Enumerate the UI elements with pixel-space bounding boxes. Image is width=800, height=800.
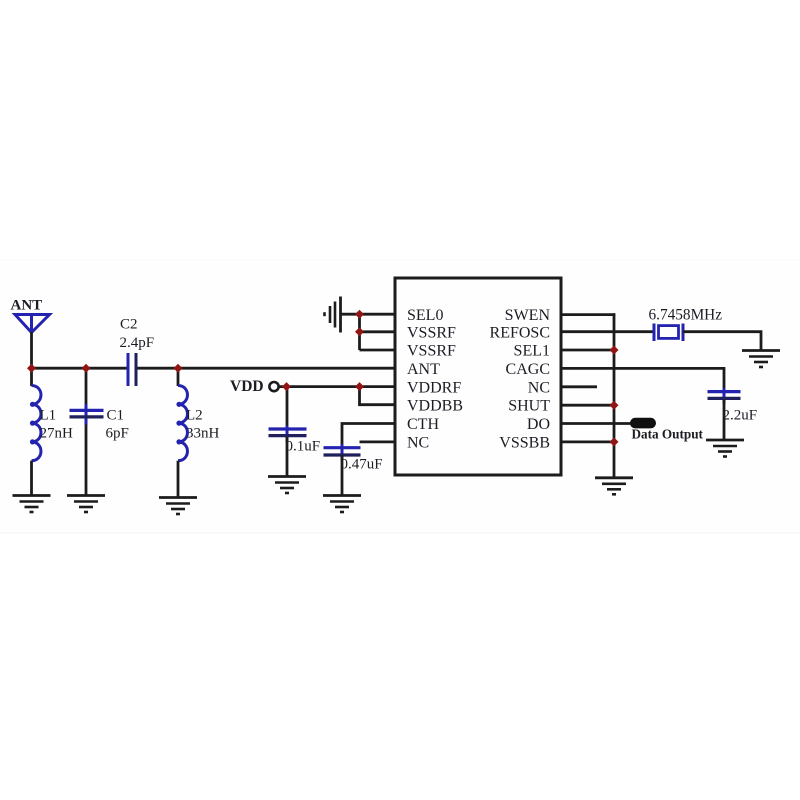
svg-text:REFOSC: REFOSC <box>490 324 550 341</box>
ground under 0.47uF <box>323 496 361 513</box>
svg-text:CTH: CTH <box>407 416 439 433</box>
wire L2 branch drop <box>177 368 180 386</box>
wire CAGC to 2.2uF <box>560 368 724 390</box>
wire NC left stub <box>360 440 397 443</box>
wire 0.1uF drop <box>286 387 289 427</box>
ground at SEL0 (rotated left) <box>325 297 341 333</box>
junction node VDDRF <box>355 382 364 391</box>
ground under 2.2uF <box>706 440 744 457</box>
inductor L1 <box>32 386 41 461</box>
wire NC right stub <box>560 385 597 388</box>
VDD terminal circle <box>269 382 278 391</box>
capacitor C1 <box>70 404 104 425</box>
svg-text:CAGC: CAGC <box>506 361 550 378</box>
crystal Y1 6.7458MHz <box>654 324 683 342</box>
svg-text:2.2uF: 2.2uF <box>723 408 758 424</box>
svg-text:NC: NC <box>528 379 550 396</box>
junction node SHUT <box>610 401 619 410</box>
svg-text:VDDBB: VDDBB <box>407 398 463 415</box>
ground under L2 <box>159 498 197 515</box>
ground under C1 <box>67 496 105 513</box>
svg-text:L1: L1 <box>40 408 57 424</box>
wire SEL1 <box>560 349 615 352</box>
svg-text:SWEN: SWEN <box>505 307 551 324</box>
svg-text:6.7458MHz: 6.7458MHz <box>649 307 723 324</box>
wire C1 branch drop <box>85 368 88 405</box>
svg-text:L2: L2 <box>186 408 203 424</box>
svg-text:C1: C1 <box>107 408 125 424</box>
ground at crystal <box>742 351 780 368</box>
svg-text:SEL0: SEL0 <box>407 307 443 324</box>
svg-text:NC: NC <box>407 434 429 451</box>
svg-text:ANT: ANT <box>407 361 440 378</box>
junction node C1 <box>82 364 91 373</box>
wire ground bus vertical <box>613 313 616 478</box>
junction node VSSRF <box>355 327 364 336</box>
capacitor C2 (series) <box>128 353 136 386</box>
svg-text:DO: DO <box>527 416 550 433</box>
svg-text:VDD: VDD <box>230 378 264 395</box>
wire VSSRF1 <box>360 330 397 333</box>
wire DO <box>560 422 631 425</box>
svg-text:VSSRF: VSSRF <box>407 324 456 341</box>
capacitor 2.2uF <box>708 388 741 404</box>
svg-text:C2: C2 <box>120 317 138 333</box>
svg-text:VDDRF: VDDRF <box>407 379 461 396</box>
data output pill <box>630 418 656 429</box>
wire CTH to 0.47uF <box>342 424 396 447</box>
wire VDD rail to IC VDDRF <box>279 385 396 388</box>
wire 2.2uF to ground <box>723 400 726 441</box>
wire C1 to ground <box>85 425 88 497</box>
svg-text:33nH: 33nH <box>186 426 220 442</box>
capacitor 0.1uF <box>269 426 307 443</box>
wire rail C2 to IC ANT pin <box>137 367 397 370</box>
ground under L1 <box>13 496 51 513</box>
wire REFOSC to crystal <box>560 330 654 333</box>
junction node SEL1 <box>610 346 619 355</box>
inductor L1 cusp dots <box>30 402 35 445</box>
junction node VDD <box>282 382 291 391</box>
wire VSS vertical link <box>358 314 361 350</box>
svg-text:VSSRF: VSSRF <box>407 343 456 360</box>
svg-text:2.4pF: 2.4pF <box>120 335 155 351</box>
svg-text:6pF: 6pF <box>106 426 129 442</box>
svg-text:SHUT: SHUT <box>508 398 550 415</box>
wire SEL0 <box>341 313 397 316</box>
wire VSSBB <box>560 440 615 443</box>
junction node SEL0 <box>355 310 364 319</box>
wire VDDBB link vertical <box>360 387 397 405</box>
svg-text:ANT: ANT <box>11 298 43 314</box>
svg-text:27nH: 27nH <box>40 426 74 442</box>
ground under bus <box>595 478 633 495</box>
junction node L2 <box>174 364 183 373</box>
IC U1 box <box>395 278 561 475</box>
wire SHUT <box>560 404 615 407</box>
wire antenna stem <box>30 332 33 386</box>
wire L2 to ground <box>177 461 180 498</box>
capacitor 0.47uF <box>324 444 361 460</box>
ground under 0.1uF <box>268 477 306 494</box>
svg-text:Data Output: Data Output <box>632 427 704 442</box>
wire L1 to ground <box>30 461 33 496</box>
svg-text:0.1uF: 0.1uF <box>286 439 321 455</box>
inductor L2 <box>178 386 187 461</box>
svg-text:VSSBB: VSSBB <box>499 434 550 451</box>
wire 0.1uF to ground <box>286 437 289 477</box>
junction node ANT <box>27 364 36 373</box>
wire rail left of C2 <box>31 367 128 370</box>
junction node VSSBB <box>610 437 619 446</box>
wire VSSRF2 <box>360 349 397 352</box>
background band (scanned image tint) <box>0 260 800 534</box>
svg-text:SEL1: SEL1 <box>514 343 550 360</box>
inductor L2 cusp dots <box>176 402 181 445</box>
wire crystal to ground <box>683 332 761 351</box>
wire 0.47uF to ground <box>341 456 344 497</box>
svg-text:0.47uF: 0.47uF <box>341 457 383 473</box>
antenna ANT symbol <box>15 315 50 333</box>
wire SWEN <box>560 313 615 316</box>
